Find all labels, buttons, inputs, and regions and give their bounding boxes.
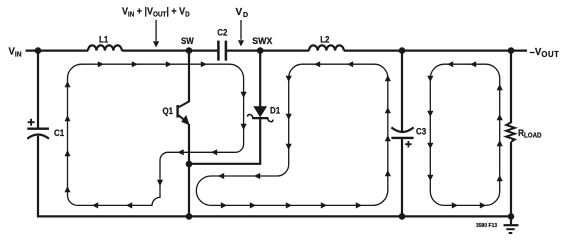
node SW label bbox=[181, 36, 194, 47]
ground symbol bbox=[510, 216, 512, 224]
svg-text:VIN + |VOUT| + VD: VIN + |VOUT| + VD bbox=[122, 6, 190, 19]
wire D1 cathode to Q1 emitter node bbox=[189, 118, 260, 164]
junction dot C3 bottom node bbox=[399, 213, 406, 220]
wire current loop 2 path (diode/output loop) bbox=[196, 64, 387, 205]
net label -VOUT bbox=[530, 47, 560, 59]
svg-text:3580 F13: 3580 F13 bbox=[476, 223, 497, 229]
annotation arrow to rail (VD) bbox=[240, 20, 242, 40]
inductor L2 bbox=[309, 45, 344, 50]
capacitor C2 bbox=[217, 41, 220, 61]
loop 3 left arrows (top side) bbox=[447, 61, 453, 67]
loop 1 left arrows (bottom side) bbox=[126, 202, 132, 208]
annotation VIN + |VOUT| + VD bbox=[122, 6, 190, 19]
wire C3 branch lower bbox=[401, 139, 403, 216]
diode D1 (Schottky) bbox=[259, 50, 261, 108]
loop 2 down arrows (left side) bbox=[286, 76, 292, 82]
svg-text:VIN: VIN bbox=[9, 46, 22, 58]
loop 3 down arrows (left side) bbox=[427, 76, 433, 82]
junction dot output node bbox=[508, 47, 515, 54]
svg-text:C3: C3 bbox=[416, 126, 426, 137]
wire current loop 1 path (input loop) bbox=[68, 64, 244, 205]
wire top rail L2 to output bbox=[344, 49, 527, 51]
junction dot ground node bbox=[508, 213, 515, 220]
loop 1 down arrows (right side) bbox=[241, 92, 247, 98]
wire Q1 emitter to bottom rail bbox=[188, 124, 190, 216]
polarity + of C3 bbox=[405, 141, 411, 147]
junction dot VIN node bbox=[35, 47, 42, 54]
svg-text:C1: C1 bbox=[54, 127, 64, 138]
junction dot SWX node bbox=[257, 47, 264, 54]
resistor RLOAD bbox=[506, 122, 515, 141]
loop 2 left arrows (top side) bbox=[314, 61, 320, 67]
loop 1 up arrows (left side) bbox=[65, 81, 71, 87]
loop 1 right arrows (top side) bbox=[98, 61, 104, 67]
loop 1 down arrow (inner segment) bbox=[157, 180, 163, 186]
node SWX label bbox=[252, 36, 272, 46]
loop 2 right arrows (bottom side) bbox=[221, 202, 227, 208]
wire left branch lower (C1 to bottom rail) bbox=[37, 136, 39, 217]
loop 3 up arrows (right side) bbox=[497, 84, 503, 90]
polarity + of C1 bbox=[28, 119, 35, 126]
svg-text:SW: SW bbox=[181, 36, 194, 47]
svg-text:L2: L2 bbox=[320, 34, 330, 45]
transistor Q1 bbox=[188, 50, 190, 103]
annotation arrow to rail (VIN+|VOUT|+VD) bbox=[155, 20, 157, 41]
junction dot Q1 bottom rail node bbox=[186, 213, 193, 220]
loop 2 up arrows (right side) bbox=[385, 75, 391, 81]
wire RLOAD branch upper bbox=[510, 51, 512, 123]
wire current loop 3 path (load loop) bbox=[430, 64, 499, 205]
svg-text:L1: L1 bbox=[99, 34, 109, 45]
wire top rail C2 to L2 bbox=[227, 49, 309, 51]
wire left branch upper (VIN node to C1) bbox=[37, 51, 39, 129]
capacitor C1 bbox=[27, 127, 49, 129]
node VIN label bbox=[9, 46, 22, 58]
wire bottom rail bbox=[37, 215, 511, 217]
svg-text:C2: C2 bbox=[217, 27, 227, 38]
svg-text:–VOUT: –VOUT bbox=[530, 47, 560, 59]
loop 1 left arrows (jog segment) bbox=[211, 149, 217, 155]
junction dot C3 top node bbox=[399, 47, 406, 54]
inductor L1 bbox=[88, 45, 122, 50]
capacitor C3 bbox=[391, 127, 413, 132]
junction dot Q1 emitter / D1 return node bbox=[186, 161, 193, 168]
wire RLOAD branch lower bbox=[510, 142, 512, 216]
svg-text:VD: VD bbox=[236, 7, 249, 19]
svg-text:Q1: Q1 bbox=[163, 106, 174, 117]
loop 2 left arrows (jog segment) bbox=[218, 173, 224, 179]
wire top rail L1 to C2 bbox=[122, 49, 218, 51]
svg-text:RLOAD: RLOAD bbox=[518, 128, 542, 140]
svg-text:SWX: SWX bbox=[252, 36, 272, 46]
wire C3 branch upper bbox=[401, 51, 403, 133]
wire top rail VIN to L1 bbox=[26, 49, 89, 51]
junction dot SW node bbox=[186, 47, 193, 54]
svg-text:D1: D1 bbox=[270, 105, 280, 116]
loop 3 right arrows (bottom side) bbox=[452, 202, 458, 208]
